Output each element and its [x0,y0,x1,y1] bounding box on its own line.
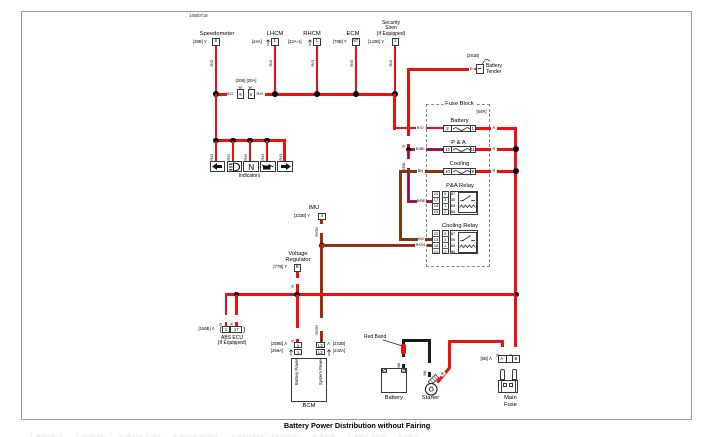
relay cooling inner pin column [442,230,449,254]
fuse block dashed box [426,104,490,267]
connector 20B pin 6 [237,89,244,99]
battery box [381,368,406,393]
wire R/GN from IMU [320,220,323,224]
fuse block designator [64R] [477,110,487,115]
wire R/O siren [394,46,397,94]
connector [242A] [316,349,326,356]
connector [242B] [316,342,326,349]
wire battery tender horizontal [407,68,469,71]
wire R down to main fuse B [514,295,517,348]
node top bus at LHCM [272,91,278,97]
speedometer label [200,31,235,37]
wire ABS drop 1 [225,293,228,315]
wire cooling fuse output R [476,170,491,173]
P & A fuse label [450,140,466,146]
node top bus at speedometer [213,91,219,97]
node regulator/BCM junction [294,292,300,298]
wire drop indicator 2 [232,141,235,161]
red band label [364,335,386,341]
wire R/GN vertical down to BCM [320,245,323,318]
node IMU junction [319,243,325,249]
leader line [383,340,402,346]
wire BK battery vertical [402,339,405,346]
system power pin label [318,358,323,385]
wire battery fuse output R [476,127,491,130]
battery fuse label [449,118,469,124]
fuse battery [443,125,476,132]
wire R from regulator [296,272,299,278]
connector [22A-1] pin 1 [288,40,302,45]
node main bus to right bus [513,292,519,298]
connector [259A] [271,349,283,354]
indicator lamp left turn [210,161,226,172]
main fuse cartridge prongs [500,369,506,379]
fuse block title [443,101,476,107]
connector ABS pins [222,326,231,333]
connector [166B] label [199,327,215,332]
wire top bus left segment [215,93,227,96]
wire siren vertical below bus [393,94,396,130]
connector [24A] pin 1 [252,40,262,45]
wire R/BE horizontal to P&A relay [407,200,417,203]
node indicator 2 [230,138,236,144]
label R [470,67,473,71]
LHCM label [267,31,283,37]
wire BK battery to starter horizontal [402,339,431,342]
relay P&A pin column [432,191,439,215]
indicators caption [239,174,261,180]
connector pair [20B][20A] labels [236,79,257,84]
wire BCM battery power drop [296,295,299,328]
figure id 14600718 [189,13,208,18]
wire drop indicator 3 [249,141,252,161]
relay cooling contact column [450,230,478,254]
starter ring terminal crimp [423,372,443,396]
node ABS 17 drop [234,292,240,298]
connector [333B] pin 4 [294,214,310,219]
relay cooling pin column [432,230,439,254]
battery terminal right [401,368,406,373]
main fuse cartridge body [498,380,518,394]
indicator lamp oil pressure [260,161,276,172]
battery label [385,395,403,401]
connector [259B] [271,342,287,347]
indicator lamp high beam [227,161,243,172]
wire BN horizontal to cooling fuse [399,170,417,173]
node indicator 3 [247,138,253,144]
battery terminal left [382,368,387,373]
connector 20A pin 6 [248,89,255,99]
relay cooling symbol [458,232,478,253]
wire from top bus down to indicator bus [215,94,218,141]
BCM box [291,358,327,402]
RHCM label [303,31,320,37]
wire drop indicator 1 [215,141,218,161]
wire R/BE horizontal to P&A fuse [407,148,415,151]
indicator lamp neutral [243,161,259,172]
red band [401,344,406,353]
main fuse connector box [498,355,520,363]
security siren label [377,21,406,38]
wire R/O LHCM [274,46,277,94]
label R/O left of 20B [227,92,234,96]
wire R/O RHCM [316,46,319,94]
cooling fuse label [449,161,471,167]
BCM label [303,403,316,409]
node indicator 1 [213,138,219,144]
wire BK starter vertical [428,339,431,363]
wire BN horizontal to cooling relay [399,238,418,241]
label R/O right of 20A [257,92,264,96]
battery tender label [486,64,502,76]
connector [39B] pin 9 [193,40,207,45]
wire P&A fuse output R [476,148,491,151]
wire R starter diagonal [435,365,452,384]
relay P&A contact column [450,191,478,215]
wire main bus [225,293,516,296]
wire drop indicator 5 (corner) [283,139,286,161]
connector [142B] pin 1 [368,40,384,45]
label R/O [417,126,424,130]
mating flourish [237,85,255,90]
connector [77B] pin B [274,265,288,270]
relay P&A symbol [458,192,478,213]
wire battery tender vertical [407,68,410,136]
main fuse label [504,395,517,408]
fuse cooling [443,168,476,175]
connector [78B] pin 87 [333,40,347,45]
node P&A fuse to bus [513,146,519,152]
connector battery tender socket [474,68,477,71]
starter label [422,395,439,401]
connector [5B] label [481,357,492,362]
node top bus at RHCM [314,91,320,97]
wire top bus main segment [265,93,397,96]
relay P&A inner pin column [442,191,449,215]
ECM label [347,31,360,37]
wire R/GN horizontal to cooling relay [320,244,415,247]
wire BK below band [402,354,405,357]
wire R starter vertical [448,340,451,368]
cropped footer text [30,434,419,437]
fuse P&A [443,146,476,153]
wire BN vertical [399,170,402,241]
node top bus at siren [392,91,398,97]
wire R/O horizontal to battery fuse [393,127,416,130]
wire drop indicator 4 [266,141,269,161]
wire R down to main fuse A [501,340,504,347]
indicator lamp right turn [277,161,293,172]
battery power pin label [294,359,299,385]
node indicator 4 [264,138,270,144]
node cooling fuse to bus [513,168,519,174]
connector [281B] label [467,54,479,59]
wire indicator bus [215,139,287,142]
wire ABS drop 2 [235,295,238,315]
wire right bus vertical [514,127,517,296]
wire R/O speedometer [215,46,218,94]
ABS ECU label [219,326,246,334]
node top bus at ECM [353,91,359,97]
wire R/O ECM [355,46,358,94]
wire R/BE vertical [407,150,410,159]
wire R starter horizontal [448,340,504,343]
